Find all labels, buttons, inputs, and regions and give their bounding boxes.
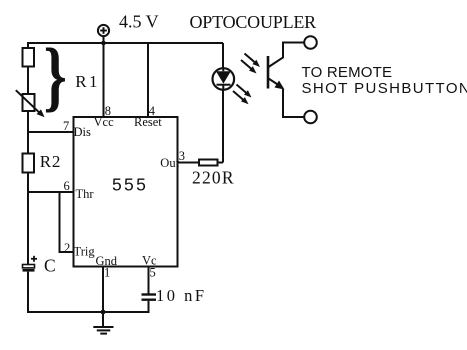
wire 220R to LED branch bbox=[218, 162, 224, 164]
svg-text:TO REMOTE: TO REMOTE bbox=[302, 64, 393, 81]
svg-text:Out: Out bbox=[160, 156, 179, 170]
power terminal +4.5V bbox=[98, 25, 109, 43]
wire pin1 Gnd bbox=[102, 267, 104, 313]
wire pin3 Out bbox=[178, 162, 200, 164]
resistor R1 fixed section bbox=[23, 48, 35, 67]
capacitor 10nF bbox=[142, 295, 157, 300]
svg-text:10 nF: 10 nF bbox=[156, 286, 207, 305]
svg-text:Trig: Trig bbox=[74, 245, 96, 259]
wire top rail bbox=[28, 42, 223, 44]
light arrow 4 bbox=[233, 91, 249, 104]
svg-text:OPTOCOUPLER: OPTOCOUPLER bbox=[190, 12, 317, 32]
svg-text:6: 6 bbox=[64, 179, 70, 193]
svg-text:R2: R2 bbox=[40, 152, 61, 171]
svg-text:Thr: Thr bbox=[76, 187, 95, 201]
terminal circle top bbox=[304, 36, 317, 49]
trimmer arrow bbox=[16, 90, 45, 117]
junction dot Vcc rail bbox=[101, 41, 106, 46]
light arrow 3 bbox=[237, 85, 252, 98]
svg-text:Reset: Reset bbox=[134, 115, 162, 129]
resistor R2 bbox=[23, 154, 35, 173]
svg-text:Dis: Dis bbox=[74, 125, 92, 139]
svg-text:2: 2 bbox=[64, 241, 70, 255]
wire Thr-Trig connector bbox=[60, 192, 74, 252]
wire C to bottom rail bbox=[28, 272, 103, 312]
svg-text:Vc: Vc bbox=[142, 254, 157, 268]
resistor R1 variable section (trimmer) bbox=[23, 94, 35, 111]
light arrow 1 bbox=[245, 54, 261, 68]
svg-text:R1: R1 bbox=[75, 72, 100, 91]
wire pin4 Reset bbox=[147, 43, 149, 117]
svg-text:5: 5 bbox=[150, 266, 156, 280]
svg-text:Vcc: Vcc bbox=[94, 115, 115, 129]
wire between R1 sections bbox=[27, 67, 29, 95]
wire R2 to C bbox=[27, 173, 29, 265]
wire pot to Dis node bbox=[27, 111, 29, 154]
wire left drop from rail to R1 bbox=[27, 42, 29, 48]
svg-text:4.5 V: 4.5 V bbox=[119, 12, 159, 32]
capacitor C electrolytic bbox=[23, 256, 38, 270]
wire pin6 Thr bbox=[28, 191, 74, 193]
resistor 220R bbox=[199, 160, 218, 166]
svg-text:220R: 220R bbox=[192, 168, 235, 188]
svg-text:C: C bbox=[44, 256, 56, 276]
phototransistor emitter bbox=[269, 79, 305, 118]
wire pin5 Vc bbox=[148, 267, 150, 294]
terminal circle bottom bbox=[304, 111, 317, 124]
wire 10nF to bottom rail bbox=[103, 301, 149, 312]
svg-text:555: 555 bbox=[112, 175, 148, 195]
svg-text:Gnd: Gnd bbox=[96, 254, 118, 268]
junction dot ground node bbox=[101, 310, 106, 315]
wire LED branch vertical bbox=[222, 43, 224, 68]
phototransistor base bar bbox=[267, 56, 270, 89]
wire pin7 Dis bbox=[28, 131, 74, 133]
svg-text:}: } bbox=[44, 32, 67, 119]
svg-text:SHOT PUSHBUTTON: SHOT PUSHBUTTON bbox=[302, 80, 467, 97]
svg-text:3: 3 bbox=[179, 149, 185, 163]
light arrow 2 bbox=[241, 60, 257, 74]
ground symbol bbox=[93, 312, 113, 334]
svg-text:7: 7 bbox=[63, 119, 69, 133]
IC U1 555 body bbox=[74, 117, 178, 267]
wire pin8 Vcc bbox=[103, 43, 105, 117]
optocoupler LED bbox=[213, 68, 235, 90]
phototransistor collector bbox=[269, 43, 305, 68]
